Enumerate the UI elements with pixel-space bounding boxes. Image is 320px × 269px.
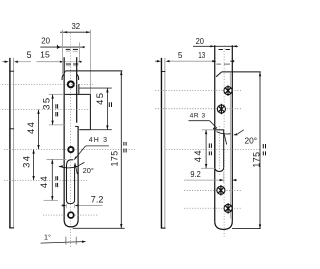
20 degree arc (left) <box>59 162 94 175</box>
dimension 44 upper (left) <box>25 110 40 150</box>
dimension 44 (right) <box>192 130 215 168</box>
horizontal centerlines (right) <box>155 90 261 208</box>
left plate outline <box>62 57 122 227</box>
svg-text:44: 44 <box>192 149 203 162</box>
dimension 9.2 (right) <box>184 169 236 183</box>
svg-text:35: 35 <box>41 96 52 109</box>
svg-text:4R 3: 4R 3 <box>190 112 206 119</box>
svg-text:20°: 20° <box>245 136 258 146</box>
dimension 13 (right) <box>212 60 234 62</box>
hidden dashes top (left) <box>66 49 79 65</box>
svg-text:9.2: 9.2 <box>190 169 201 179</box>
svg-text:15: 15 <box>40 51 50 60</box>
dimension 5 (left) <box>3 50 32 63</box>
dimension 44 lower (left) <box>38 159 66 200</box>
label 4R 3 (right) <box>189 112 218 129</box>
vertical centerline (right plate) <box>223 45 225 238</box>
horizontal centerlines (left) <box>2 84 135 215</box>
dimension 20 (right) <box>193 37 238 47</box>
svg-text:34: 34 <box>21 155 32 168</box>
svg-text:4H 3: 4H 3 <box>89 137 107 144</box>
flange (left) <box>64 94 90 129</box>
dimension 35 (left) <box>41 94 66 125</box>
dimension 20 (left) <box>40 36 84 61</box>
side bar (section) right <box>161 58 166 229</box>
side bar (section) left <box>9 58 14 229</box>
svg-text:20: 20 <box>196 37 205 46</box>
slot centerline (right) <box>218 126 220 176</box>
svg-text:175: 175 <box>109 150 119 166</box>
dimension 1 degree (left bottom) <box>41 232 87 244</box>
latch slot (left) <box>66 160 77 204</box>
svg-text:32: 32 <box>72 21 81 31</box>
screw hole bottom (left) <box>68 212 74 218</box>
20 degree arc + leader (right) <box>217 130 258 146</box>
svg-text:45: 45 <box>94 92 105 105</box>
screw hole middle ring (left) <box>68 147 73 152</box>
dimension 45 (left) <box>79 88 112 130</box>
svg-text:20°: 20° <box>83 166 94 175</box>
dimension 5 (right) <box>155 51 213 62</box>
screw hole top (left) <box>68 81 74 87</box>
svg-text:44: 44 <box>38 175 49 188</box>
countersunk hole B (right) <box>217 104 225 114</box>
svg-text:5: 5 <box>27 50 32 60</box>
countersunk hole A (right) <box>224 85 232 95</box>
svg-text:44: 44 <box>25 121 36 134</box>
dimension 34 (left) <box>21 149 35 180</box>
svg-text:1°: 1° <box>44 232 51 241</box>
hidden dashes top (right) <box>219 49 230 51</box>
vertical centerline (left plate) <box>70 33 72 247</box>
dimension 175 (right) <box>232 72 266 229</box>
right plate outline <box>215 45 261 229</box>
latch slot (right) <box>202 130 227 172</box>
dimension 15 (left) <box>37 51 83 63</box>
label 4R 3 (left) <box>74 137 109 160</box>
dimension 7.2 (left) <box>61 195 104 209</box>
svg-text:7.2: 7.2 <box>91 195 104 205</box>
dimension 175 (left) <box>73 71 126 228</box>
countersunk hole C (right) <box>217 185 225 195</box>
svg-text:20: 20 <box>41 36 50 45</box>
countersunk hole D (right) <box>224 203 232 213</box>
svg-text:5: 5 <box>178 51 183 60</box>
svg-text:13: 13 <box>198 51 205 60</box>
dimension 32 (left) <box>60 21 90 95</box>
svg-text:175: 175 <box>251 151 261 167</box>
